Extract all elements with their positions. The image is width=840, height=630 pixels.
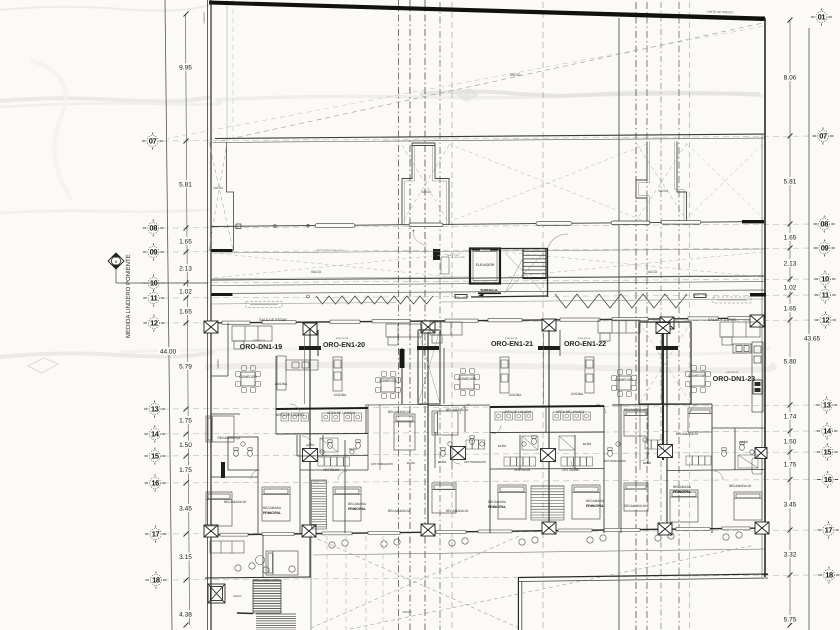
unit20 kitchen island [333, 357, 342, 391]
center-right shaft [636, 142, 687, 223]
terrace chair [600, 535, 606, 541]
laundry appliance [322, 413, 330, 421]
black wall stub below shaft [433, 249, 440, 260]
grid bubble -13- right [816, 397, 837, 414]
svg-text:COCINA: COCINA [509, 393, 522, 397]
zigzag joint left [316, 296, 433, 304]
terrace chair [519, 539, 525, 545]
column at front wall [421, 321, 435, 333]
svg-text:12: 12 [822, 316, 830, 325]
bath dividers B [464, 406, 466, 432]
svg-text:RECAMARA 03: RECAMARA 03 [624, 408, 647, 412]
unit21 kitchen back wall [443, 348, 445, 404]
long wall below laundry B [490, 431, 604, 434]
bed recamara02 u21 [432, 483, 456, 513]
core shaft hatch B [531, 486, 564, 520]
svg-text:PRINCIPAL: PRINCIPAL [673, 490, 691, 494]
grid bubble -17- left [145, 526, 166, 543]
unit19 kitchen counter [277, 356, 318, 390]
terrace chair [723, 534, 729, 540]
core bottom wall [471, 296, 548, 297]
column mid [658, 445, 673, 458]
capsule window [661, 221, 701, 225]
svg-text:07: 07 [819, 132, 827, 141]
partition unit23 entry [647, 404, 649, 464]
closet row u22 right [645, 440, 664, 449]
svg-text:AREA DE LAVADO: AREA DE LAVADO [556, 410, 585, 414]
sofa [430, 322, 462, 343]
stair handrail [237, 612, 253, 615]
courtyard X cross [311, 536, 755, 629]
terrace chair [587, 537, 593, 543]
svg-text:BAÑO: BAÑO [643, 461, 652, 465]
sink [448, 442, 452, 446]
grid bubble -16- left [145, 475, 166, 492]
party wall kitchen crossbars [299, 346, 321, 350]
long wall below laundry A [276, 433, 368, 436]
door swing arc top right of core [548, 234, 568, 248]
bedroom window opening [368, 531, 400, 534]
unit19 kitchen wall [275, 356, 277, 434]
patio chair [263, 567, 269, 573]
svg-text:1.75: 1.75 [784, 462, 797, 469]
svg-text:● N+12.15: ● N+12.15 [726, 371, 739, 374]
svg-text:11: 11 [150, 294, 157, 303]
sink [350, 450, 354, 454]
closet row u21 left [466, 440, 485, 449]
svg-text:08: 08 [149, 224, 157, 233]
grid bubble -18- right [819, 567, 840, 584]
svg-text:3.45: 3.45 [179, 506, 192, 513]
toilet [356, 440, 361, 449]
grid bubble -01- right [811, 9, 832, 26]
dimension 5.79 left [175, 362, 196, 370]
grid line 15 [163, 452, 820, 456]
vacio X cross band left [213, 144, 763, 278]
dimension 5.81 right [779, 177, 801, 185]
patio couch bottom-left [210, 541, 244, 553]
dimension 3.45 left [175, 504, 196, 512]
joint node [274, 225, 277, 228]
svg-text:COCINA: COCINA [275, 382, 288, 386]
unit20 kitchen wall w black chunk [401, 348, 403, 404]
column at front wall [750, 315, 764, 327]
zigzag joint right [555, 294, 687, 308]
svg-text:MEDIDA LINDERO PONIENTE: MEDIDA LINDERO PONIENTE [125, 254, 132, 338]
grid bubble -07- right [813, 128, 834, 145]
svg-text:5.80: 5.80 [784, 359, 797, 366]
svg-text:1.02: 1.02 [179, 289, 192, 296]
terrace boundary double wall [518, 574, 768, 578]
big vacio diagonal D2 [165, 26, 764, 139]
svg-text:RECAMARA 02: RECAMARA 02 [624, 504, 647, 508]
bedroom window opening [322, 532, 352, 535]
datum line V1 [398, 0, 400, 630]
grid bubble -09- left [143, 244, 164, 261]
svg-text:DISTRIBUIDOR: DISTRIBUIDOR [604, 459, 626, 463]
grid bubble -16- right [817, 471, 838, 488]
partition unit19 bath block [228, 437, 258, 470]
unit22 kitchen island [585, 357, 594, 393]
toilet [441, 448, 446, 457]
leader + door arc below shaft [413, 231, 427, 245]
svg-text:VACIO: VACIO [421, 190, 431, 194]
bath band wall B [490, 468, 604, 471]
stair treads [523, 252, 546, 278]
svg-text:COCINA: COCINA [571, 392, 584, 396]
svg-text:18: 18 [152, 576, 160, 585]
laundry appliance [495, 412, 503, 420]
overall dimension 44.00 left [158, 347, 180, 355]
capsule window [611, 221, 650, 225]
bedroom window opening [262, 533, 294, 536]
svg-text:PRINCIPAL: PRINCIPAL [586, 504, 604, 508]
balcony front line right [440, 299, 765, 302]
svg-text:VACIO: VACIO [216, 359, 220, 369]
stair core right wall [547, 249, 549, 298]
column at front wall [542, 319, 556, 331]
datum line V11 [678, 2, 680, 630]
toilet [608, 448, 613, 457]
patio table bottom-left [256, 556, 265, 565]
dimension 2.13 right [779, 259, 801, 267]
svg-text:5.75: 5.75 [784, 617, 797, 624]
door swing [451, 455, 460, 464]
svg-text:13: 13 [151, 405, 159, 414]
column mid [541, 449, 556, 462]
svg-text:16: 16 [151, 479, 159, 488]
balcony front line left [211, 303, 396, 305]
svg-text:COMEDOR: COMEDOR [458, 377, 476, 381]
dimension 1.02 right [779, 283, 801, 291]
building top edge at grid 07 [215, 134, 765, 139]
grid bubble -07- left [142, 133, 163, 150]
svg-text:RECAMARA: RECAMARA [586, 499, 605, 503]
vestidor walls pair B [519, 435, 521, 470]
dim tick right [788, 477, 793, 482]
svg-text:14: 14 [151, 430, 160, 439]
dimension 2.13 left [175, 264, 196, 272]
partition unit23 bath [734, 428, 736, 470]
grid line 07 [163, 136, 820, 141]
datum line V6 [542, 2, 544, 630]
patio chair [249, 563, 255, 569]
dimension 1.75 left [175, 416, 196, 424]
grid bubble -10- left [143, 275, 164, 292]
patio chair [235, 565, 241, 571]
svg-text:DISTRIBUIDOR: DISTRIBUIDOR [464, 460, 486, 464]
wall top recamara01 unit21 [428, 404, 490, 407]
grid line 17 [163, 530, 820, 534]
dim tick [184, 250, 189, 255]
svg-text:1.02: 1.02 [784, 285, 797, 292]
laundry appliance [563, 412, 571, 420]
dimension 5.75 right [779, 615, 801, 623]
property line V7 [618, 18, 620, 630]
laundry appliance [301, 413, 309, 421]
party wall 20|21 [427, 332, 429, 533]
terrace edge line [313, 549, 765, 555]
svg-text:3.45: 3.45 [784, 502, 797, 509]
front wall window [222, 321, 250, 324]
svg-text:16: 16 [824, 475, 832, 484]
grid bubble -14- right [817, 423, 838, 440]
svg-text:VACIO: VACIO [402, 610, 412, 614]
svg-text:ORO-DN1-19: ORO-DN1-19 [240, 344, 283, 351]
svg-text:5.79: 5.79 [179, 364, 192, 371]
partition unit23 bedroom [711, 404, 713, 533]
door swing [571, 461, 580, 470]
front wall window [688, 317, 718, 320]
svg-text:● N+12.15: ● N+12.15 [253, 339, 266, 342]
corridor wall unit20 [379, 404, 381, 470]
svg-text:AREA DE LAVADO: AREA DE LAVADO [327, 411, 356, 415]
grid bubble -18- left [145, 572, 166, 589]
unit19 lower room wall [262, 535, 264, 577]
svg-text:COMEDOR: COMEDOR [239, 375, 257, 379]
door swing [492, 425, 501, 434]
terrace chair [449, 540, 455, 546]
bedroom bottom wall (grid 17) [205, 528, 765, 535]
datum line V12 [689, 2, 691, 630]
svg-text:1.65: 1.65 [784, 235, 797, 242]
grid bubble -11- right [815, 287, 836, 304]
bed recamara02 u23 [734, 492, 762, 520]
dimension 1.65 right [779, 304, 801, 312]
svg-text:1.50: 1.50 [179, 442, 192, 449]
svg-text:07: 07 [149, 137, 157, 146]
stair flight lower-left [253, 580, 281, 613]
overall dimension 43.65 right [800, 334, 824, 342]
svg-text:PROYECCION DE LOSA: PROYECCION DE LOSA [316, 249, 344, 252]
tub unit23 [752, 458, 762, 474]
left dimension chain [186, 14, 190, 625]
terrace planter blocks right [694, 294, 706, 298]
bedroom window opening [558, 529, 592, 532]
grid bubble -12- right [815, 312, 836, 329]
svg-text:LIMITE DE PREDIO: LIMITE DE PREDIO [706, 10, 734, 15]
svg-text:BAÑO: BAÑO [583, 442, 592, 446]
heavy wall chunk right at grid 08 [742, 220, 764, 223]
shower unit21 [522, 436, 538, 450]
svg-text:RECAMARA: RECAMARA [263, 506, 282, 510]
svg-text:13: 13 [823, 401, 831, 410]
svg-text:▲ N + 2.15: ▲ N + 2.15 [451, 256, 465, 259]
dim tick [788, 18, 793, 23]
svg-text:COMEDOR: COMEDOR [615, 378, 633, 382]
property line right [808, 28, 810, 630]
shower unit22 [559, 436, 575, 450]
svg-text:1.65: 1.65 [784, 306, 797, 313]
laundry appliance [505, 412, 513, 420]
grid bubble -12- left [143, 315, 164, 332]
lindero compass symbol [108, 253, 124, 269]
datum line V3 [424, 0, 426, 630]
svg-text:RECAMARA 01: RECAMARA 01 [388, 410, 411, 414]
laundry appliance [354, 413, 362, 421]
grid bubble -10- right [815, 271, 836, 288]
dimension 1.74 right [779, 412, 801, 420]
vestidor closet row [504, 457, 536, 466]
front wall window [372, 320, 410, 323]
dimension 3.45 right [779, 500, 801, 508]
dimension 9.95 left [175, 63, 196, 71]
datum line V9 [646, 2, 648, 630]
svg-text:RECAMARA 01: RECAMARA 01 [446, 408, 469, 412]
svg-text:RECAMARA 01: RECAMARA 01 [676, 432, 699, 436]
svg-text:08: 08 [820, 220, 828, 229]
elevator cab double wall [470, 249, 500, 284]
dim tick right [788, 134, 793, 139]
svg-text:01: 01 [818, 13, 826, 22]
dimension 1.50 right [779, 437, 801, 445]
svg-text:17: 17 [152, 530, 160, 539]
unit19 bottom wall [205, 577, 311, 578]
svg-text:2.13: 2.13 [784, 261, 797, 268]
svg-text:1.50: 1.50 [784, 439, 797, 446]
grid line 13 [163, 405, 820, 409]
bedroom window opening [604, 528, 640, 531]
unit19 mid wall [211, 413, 240, 415]
vestidor closet row [561, 457, 593, 466]
bed recamara01 u23 [688, 408, 712, 432]
dim tick right [788, 318, 793, 323]
wall at grid 08 with window openings [211, 222, 765, 227]
svg-text:1.74: 1.74 [784, 414, 797, 421]
datum line V8 [635, 2, 637, 630]
grid bubble -17- right [818, 522, 839, 539]
grid line 14 [163, 431, 820, 434]
corridor top wall unit20 [368, 404, 428, 407]
dim tick right [788, 450, 793, 455]
terrace chair [342, 540, 348, 546]
svg-text:3.32: 3.32 [784, 552, 797, 559]
svg-text:VACIO: VACIO [233, 594, 242, 598]
svg-text:● N+12.15: ● N+12.15 [336, 337, 349, 340]
svg-text:RECAMARA Q1: RECAMARA Q1 [217, 436, 240, 440]
front wall window [262, 321, 296, 324]
lindero leader line [115, 269, 117, 283]
grid bubble -09- right [814, 240, 835, 257]
svg-text:43.65: 43.65 [804, 336, 821, 343]
grid bubble -15- right [817, 444, 838, 461]
unit20 kitchen back wall [317, 330, 319, 356]
dining table u19 [235, 365, 260, 392]
capsule window [409, 223, 443, 227]
svg-text:1.65: 1.65 [179, 309, 192, 316]
unit21 kitchen island [500, 357, 509, 393]
dim tick [184, 578, 189, 583]
laundry rooms top wall pair B [490, 406, 604, 407]
node circle [307, 295, 310, 298]
door swing [251, 470, 260, 479]
front wall window [612, 318, 648, 321]
grid bubble -15- left [144, 448, 165, 465]
svg-text:PRINCIPAL: PRINCIPAL [348, 507, 366, 511]
svg-text:AREA DE LAVADO: AREA DE LAVADO [503, 410, 532, 414]
laundry appliance [583, 412, 591, 420]
right dimension chain [789, 20, 791, 625]
left building edge double line [207, 0, 209, 630]
svg-text:BAÑO: BAÑO [438, 460, 447, 464]
svg-text:VESTIDOR: VESTIDOR [514, 468, 531, 472]
svg-text:RECAMARA: RECAMARA [488, 500, 507, 504]
dimension 3.15 left [175, 553, 196, 561]
dim tick [184, 481, 189, 486]
toilet [328, 440, 333, 449]
svg-text:VACIO: VACIO [510, 73, 521, 77]
sink [320, 450, 324, 454]
dim tick bottom [184, 623, 189, 628]
terrace chair [381, 541, 387, 547]
svg-text:RECAMARA 02: RECAMARA 02 [446, 509, 469, 513]
dim tick [184, 226, 189, 231]
laundry appliance [332, 413, 340, 421]
vestidor closet row [318, 457, 350, 466]
svg-text:ORO-EN1-20: ORO-EN1-20 [323, 342, 365, 349]
svg-text:ORO-EN1-21: ORO-EN1-21 [491, 341, 533, 348]
svg-text:RECAMARA: RECAMARA [348, 502, 367, 506]
toilet [234, 448, 239, 457]
dining table u20 [375, 371, 400, 398]
corridor glass line [211, 277, 470, 279]
courtyard left edge [310, 535, 312, 630]
svg-text:DISTRIBUIDOR: DISTRIBUIDOR [371, 462, 393, 466]
svg-text:09: 09 [821, 244, 829, 253]
svg-text:1.75: 1.75 [179, 467, 192, 474]
column at bedroom wall [421, 524, 435, 536]
column at bedroom wall [302, 525, 316, 537]
svg-text:3.15: 3.15 [179, 554, 192, 561]
svg-text:14: 14 [823, 427, 832, 436]
column at front wall [303, 323, 317, 335]
laundry appliance [525, 412, 533, 420]
unit19 vacio strip edge [227, 323, 229, 376]
dim tick right [788, 293, 793, 298]
laundry rooms top wall pair A [276, 408, 368, 409]
shaft 22-23 center heavy mullion [662, 322, 664, 460]
svg-text:44.00: 44.00 [160, 349, 177, 356]
column at bedroom wall [755, 522, 769, 534]
svg-text:18: 18 [825, 571, 833, 580]
sofa [386, 324, 422, 345]
svg-text:17: 17 [825, 526, 833, 535]
datum line V2 [409, 0, 411, 630]
dim tick right [788, 246, 793, 251]
laundry appliance [281, 413, 289, 421]
svg-text:RECAMARA 02: RECAMARA 02 [224, 500, 247, 504]
column mid [303, 449, 318, 462]
partition unit19 lower rooms [257, 470, 259, 533]
svg-text:SUBE/BAJA: SUBE/BAJA [480, 288, 498, 292]
corridor wall unit21 [451, 432, 453, 470]
bed principal u21 [498, 485, 526, 519]
svg-text:COMEDOR: COMEDOR [688, 374, 706, 378]
bed recamara03 u22 [624, 410, 648, 436]
dim tick right [788, 403, 793, 408]
elevator door jambs [472, 248, 480, 251]
stair run diagonals [505, 253, 544, 293]
dim tick [184, 281, 189, 286]
party wall 22|23 [666, 328, 668, 533]
terrace chair [329, 542, 335, 548]
terrace chair [394, 539, 400, 545]
big vacio diagonal D1 [211, 23, 763, 143]
left shaft heavy wall segment B [212, 293, 233, 296]
bed recamara02 u22 [624, 483, 648, 511]
shower unit23 [738, 455, 758, 468]
stair core top wall [470, 248, 548, 250]
